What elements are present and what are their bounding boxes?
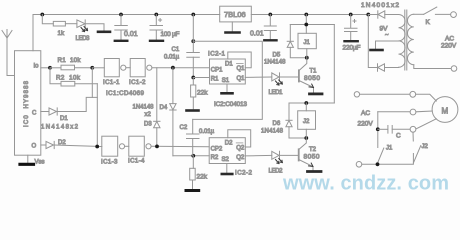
- wire 7BL06 in vertical: [192, 15, 194, 42]
- svg-text:8050: 8050: [304, 75, 320, 82]
- motor M: [432, 97, 458, 123]
- wire J1 bottom to T1 collector: [299, 49, 307, 71]
- capacitor C1 0.01u: [187, 41, 200, 77]
- wire D2-Q2bar loop: [228, 130, 251, 147]
- diode D3 1N4148: [154, 68, 160, 147]
- wire node A down to D1 net: [91, 68, 93, 98]
- svg-text:IC1:CD4069: IC1:CD4069: [106, 90, 145, 97]
- wire LED2 to T2 base: [280, 154, 299, 156]
- svg-text:1N4148: 1N4148: [264, 60, 286, 66]
- wire J2 feed vertical: [306, 25, 334, 104]
- terminal circle row3: [410, 126, 416, 132]
- resistor R2 10k: [50, 68, 97, 86]
- LED LED2: [272, 151, 283, 163]
- wire primary bottom to terminal: [414, 65, 451, 69]
- svg-text:Q1: Q1: [237, 76, 246, 82]
- wire LED1 to T1 base: [280, 76, 289, 78]
- terminal circle AC bottom: [356, 162, 362, 168]
- relay coil J2: [298, 111, 316, 130]
- inverter IC1-2: [126, 59, 152, 77]
- resistor R1 10k: [50, 65, 92, 70]
- svg-text:Q2: Q2: [236, 155, 245, 161]
- flip-flop IC2-1: [210, 59, 246, 84]
- capacitor C2 0.01u: [187, 119, 200, 155]
- svg-text:D2: D2: [58, 140, 66, 146]
- node J1 bottom junction: [376, 162, 380, 166]
- wire AC bottom row: [362, 154, 414, 165]
- resistor 1k: [53, 21, 77, 26]
- svg-text:1N4148: 1N4148: [261, 129, 284, 135]
- svg-text:D5: D5: [273, 52, 281, 58]
- terminal circle transformer bottom: [451, 66, 457, 72]
- wire R2-pin row: [173, 155, 209, 157]
- wire +V rail top-left corner down to IC0: [32, 15, 34, 51]
- svg-text:C: C: [396, 133, 401, 140]
- svg-text:LED3: LED3: [76, 35, 91, 42]
- svg-text:D1: D1: [60, 116, 68, 122]
- node rail-rectifier junction: [366, 13, 370, 17]
- svg-text:J1: J1: [386, 146, 393, 152]
- node rail-J1 junction: [304, 13, 308, 17]
- antenna: [2, 30, 15, 76]
- capacitor 100uF: [150, 15, 163, 40]
- ground 22k upper: [187, 109, 199, 112]
- capacitor 0.01 (right): [264, 15, 276, 40]
- svg-text:~: ~: [385, 33, 389, 39]
- svg-text:M: M: [442, 107, 449, 116]
- wire Q2 to LED2: [245, 154, 271, 157]
- transformer center tap to ground: [371, 41, 399, 50]
- wire node to IC1-1 input: [92, 67, 104, 69]
- LED3: [77, 20, 88, 32]
- svg-text:D3: D3: [144, 122, 152, 128]
- svg-text:1N4148x2: 1N4148x2: [41, 124, 79, 130]
- svg-text:J2: J2: [422, 144, 429, 150]
- ground S2: [222, 164, 233, 175]
- svg-text:IC2-2: IC2-2: [235, 170, 253, 177]
- node R2-pin junction: [191, 154, 195, 158]
- capacitor C (motor): [378, 126, 410, 134]
- IC0 HY9888 receiver box: [15, 51, 41, 156]
- svg-text:K: K: [426, 19, 431, 26]
- node R1 out junction: [90, 66, 94, 70]
- wire rail to J1 branch: [305, 15, 307, 34]
- wire R-pin to FF1: [193, 77, 209, 79]
- svg-text:R2: R2: [211, 155, 219, 161]
- svg-text:C2: C2: [180, 125, 188, 131]
- switch contact J2: [413, 132, 421, 163]
- ground cap 220uF: [345, 40, 358, 42]
- wire J2 bottom to T2: [299, 129, 307, 149]
- node D4 top junction: [171, 66, 175, 70]
- ground 22k lower: [186, 189, 199, 192]
- diode D4: [170, 68, 176, 156]
- svg-text:220V: 220V: [441, 43, 457, 50]
- terminal circle row2: [410, 109, 416, 115]
- resistor 22k (upper): [191, 78, 196, 109]
- wire top +V rail left section: [33, 14, 220, 16]
- svg-text:220V: 220V: [358, 121, 374, 128]
- wire IC1-3 feed: [97, 146, 102, 148]
- transformer primary 220V winding: [407, 14, 413, 64]
- node T1 collector junction: [305, 56, 309, 60]
- svg-text:0.01µ: 0.01µ: [164, 55, 180, 61]
- wire row2: [378, 111, 410, 113]
- inverter IC1-4: [125, 136, 151, 156]
- svg-text:9V: 9V: [380, 26, 389, 33]
- node IC1-3 in junction: [95, 145, 99, 149]
- wire 1k branch: [42, 15, 53, 24]
- svg-text:0.01: 0.01: [124, 31, 138, 38]
- wire J2 top feed: [289, 102, 334, 104]
- svg-text:Io: Io: [34, 64, 40, 70]
- node branch junction: [304, 23, 308, 27]
- svg-text:IC1-3: IC1-3: [101, 159, 118, 166]
- svg-text:LED1: LED1: [269, 90, 284, 96]
- svg-text:220µF: 220µF: [343, 45, 361, 52]
- node rail-C3 junction: [119, 13, 123, 17]
- ground cap 100uF: [150, 40, 163, 42]
- ground S1: [222, 84, 233, 93]
- ground cap 0.01 left: [115, 40, 128, 42]
- ground T2 emitter: [308, 170, 322, 173]
- node +6V junction: [191, 39, 195, 43]
- wire LED3 to ground: [85, 24, 104, 30]
- svg-text:22k: 22k: [197, 90, 208, 97]
- diode D5 1N4148: [287, 25, 307, 58]
- ground T1 emitter: [310, 93, 323, 96]
- svg-text:1N4001x2: 1N4001x2: [361, 2, 399, 9]
- regulator 7BL06: [220, 6, 252, 22]
- svg-text:IC2:C04013: IC2:C04013: [214, 101, 248, 108]
- node A Io junction: [48, 66, 52, 70]
- wire top +V rail right section: [251, 14, 368, 16]
- svg-text:R1: R1: [211, 76, 219, 82]
- svg-text:IC1-2: IC1-2: [129, 79, 146, 86]
- resistor 22k (lower): [190, 156, 196, 189]
- relay contact K: [414, 7, 457, 18]
- svg-text:IC2-1: IC2-1: [208, 51, 226, 58]
- svg-text:AC: AC: [361, 110, 370, 117]
- ground 7BL06: [226, 22, 240, 33]
- node D3 bottom junction: [155, 145, 159, 149]
- inverter IC1-3: [102, 136, 125, 156]
- svg-text:x2: x2: [145, 112, 152, 118]
- node rail-220uF junction: [349, 13, 353, 17]
- svg-text:D4: D4: [160, 105, 168, 111]
- svg-text:0.01µ: 0.01µ: [199, 129, 215, 135]
- wire +6V rail to C2 loop: [193, 41, 263, 119]
- svg-text:AC: AC: [445, 36, 454, 43]
- wire D1-Q1bar loop: [228, 52, 251, 68]
- transistor T2 8050: [299, 149, 313, 170]
- svg-text:R2 10k: R2 10k: [56, 75, 81, 82]
- svg-text:J1: J1: [304, 40, 311, 46]
- ground LED3: [98, 30, 110, 33]
- diode rectifier bottom: [368, 15, 398, 72]
- node rail-C4 junction: [268, 13, 272, 17]
- node rail-100uF junction: [154, 13, 158, 17]
- diode D6 1N4148: [286, 103, 306, 138]
- svg-text:D1: D1: [225, 61, 233, 67]
- diode rectifier top: [368, 11, 398, 18]
- ground cap 0.01 right: [264, 39, 276, 41]
- svg-text:0.01: 0.01: [250, 30, 264, 37]
- terminal circle AC top: [354, 92, 359, 97]
- transistor T1 8050: [288, 70, 314, 92]
- svg-text:LED2: LED2: [269, 169, 284, 175]
- switch contact J1: [378, 132, 384, 163]
- node J2 top junction: [304, 101, 308, 105]
- svg-text:CP1: CP1: [211, 67, 223, 73]
- diode D1 1N4148: [41, 97, 98, 115]
- capacitor 220uF: [345, 15, 358, 41]
- wire D5/J2-feed branch: [290, 24, 334, 26]
- svg-text:CP2: CP2: [211, 146, 223, 152]
- capacitor 0.01 (left): [115, 15, 128, 40]
- wire IC1-4 out to CP2: [151, 145, 209, 148]
- node row3 junction: [376, 127, 380, 131]
- wire IC1-2 out to CP1: [152, 67, 210, 69]
- svg-text:www. cndzz. com: www. cndzz. com: [282, 173, 449, 193]
- node rail-7BL06-in junction: [191, 13, 195, 17]
- terminal circle row1 right: [410, 91, 416, 97]
- node rail-1k junction: [40, 13, 44, 17]
- flip-flop IC2-2: [209, 138, 245, 164]
- pin Vss ground: [20, 155, 34, 164]
- svg-text:J2: J2: [303, 119, 310, 125]
- wire row2 corner down: [377, 112, 379, 130]
- svg-text:1k: 1k: [58, 30, 65, 37]
- svg-text:T2: T2: [309, 147, 317, 153]
- svg-text:IC1-1: IC1-1: [103, 79, 120, 86]
- wire R2 to IC1-3 input vertical: [96, 84, 98, 147]
- svg-text:O: O: [32, 144, 37, 150]
- transformer core: [405, 10, 407, 70]
- svg-text:D6: D6: [273, 121, 281, 127]
- inverter IC1-1: [104, 59, 126, 77]
- svg-text:22k: 22k: [197, 174, 208, 181]
- relay coil J1: [298, 33, 316, 48]
- svg-text:Q1: Q1: [237, 66, 246, 72]
- svg-text:Vss: Vss: [35, 160, 45, 166]
- svg-text:T1: T1: [310, 68, 318, 74]
- svg-text:D2: D2: [225, 140, 233, 146]
- svg-text:8050: 8050: [304, 154, 320, 161]
- svg-text:1N4148: 1N4148: [133, 105, 155, 111]
- svg-text:100 µF: 100 µF: [161, 31, 180, 38]
- transformer secondary 9V winding: [399, 15, 406, 68]
- svg-text:IC0 HY9888: IC0 HY9888: [24, 80, 30, 127]
- svg-text:IC1-4: IC1-4: [128, 158, 145, 165]
- LED LED1: [272, 73, 283, 85]
- svg-text:S1: S1: [222, 78, 230, 84]
- diode D2: [41, 141, 97, 148]
- wire to J2 box: [305, 103, 307, 111]
- wire AC row1 to motor: [360, 93, 410, 95]
- node T2 collector junction: [304, 136, 308, 140]
- svg-text:Q2: Q2: [236, 146, 245, 152]
- svg-text:C1: C1: [172, 47, 180, 53]
- node R1-pin junction: [191, 76, 195, 80]
- svg-text:7BL06: 7BL06: [224, 10, 246, 19]
- wire Q1 to LED1: [245, 76, 271, 78]
- svg-text:R1 10k: R1 10k: [58, 57, 82, 64]
- svg-text:S2: S2: [222, 157, 230, 163]
- svg-text:C: C: [32, 110, 37, 116]
